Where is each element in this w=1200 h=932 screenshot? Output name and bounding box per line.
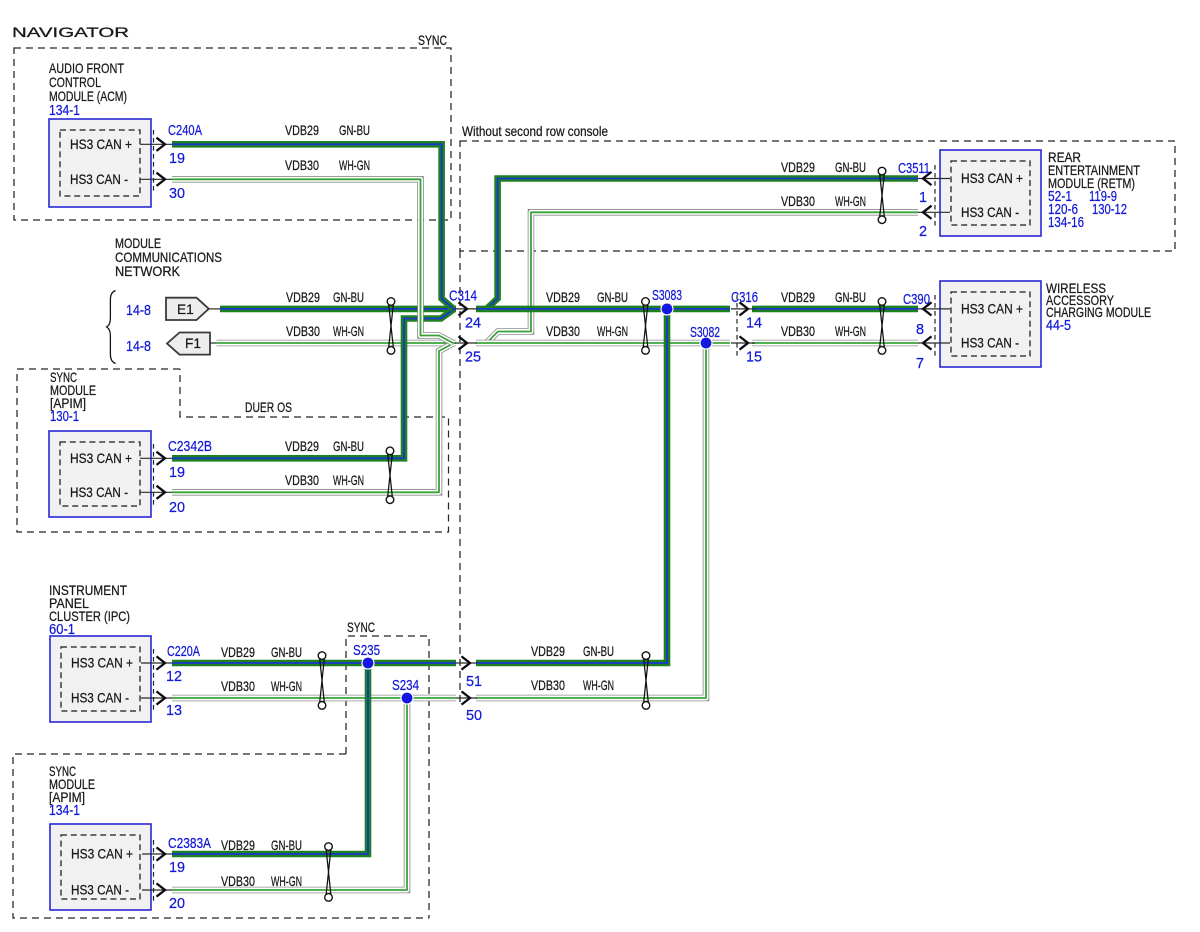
pin arrow C314 25 <box>455 342 477 344</box>
svg-text:15: 15 <box>746 350 762 366</box>
svg-text:134-1: 134-1 <box>49 803 80 819</box>
svg-text:HS3 CAN -: HS3 CAN - <box>70 172 128 187</box>
svg-text:HS3 CAN +: HS3 CAN + <box>70 137 132 152</box>
svg-text:130-1: 130-1 <box>50 409 79 425</box>
wire VDB30 WH-GN from C2342B pin 20 up to C314 pin 25 <box>172 344 453 493</box>
svg-text:GN-BU: GN-BU <box>835 290 866 305</box>
module box IPC <box>50 636 151 722</box>
wire VDB30 WH-GN from C2383A pin 20 up to splice S234 <box>172 701 407 890</box>
connector line C240A (dashed) <box>153 130 155 193</box>
svg-text:12: 12 <box>166 669 182 685</box>
svg-text:CONTROL: CONTROL <box>49 75 101 90</box>
connector line C390 (dashed) <box>934 295 936 357</box>
svg-text:C3511: C3511 <box>898 161 930 177</box>
svg-text:VDB29: VDB29 <box>221 838 255 853</box>
node E1 flag <box>166 298 209 320</box>
wire VDB30 WH-GN from C220A pin 13 through S234 to pin 50 <box>172 695 456 702</box>
pin arrow C2342B 19 <box>140 457 172 459</box>
svg-text:2: 2 <box>919 224 927 240</box>
module box SYNC MODULE APIM 134-1 <box>50 824 151 910</box>
svg-text:44-5: 44-5 <box>1046 318 1071 334</box>
pin arrow C314 24 <box>455 308 477 310</box>
svg-text:AUDIO FRONT: AUDIO FRONT <box>49 61 125 76</box>
connector line C2383A (dashed) <box>153 840 155 904</box>
svg-text:VDB30: VDB30 <box>781 194 815 209</box>
wire VDB29 GN-BU C316 pin 14 to WACM C390 pin 8 <box>752 306 918 313</box>
pin arrow C240A 19 <box>140 143 172 145</box>
svg-text:VDB30: VDB30 <box>546 324 580 339</box>
svg-text:WH-GN: WH-GN <box>835 194 866 209</box>
svg-text:HS3 CAN +: HS3 CAN + <box>71 656 133 671</box>
svg-text:7: 7 <box>916 356 924 372</box>
twisted pair symbol lower bus wires <box>644 659 649 702</box>
svg-text:C314: C314 <box>449 289 477 305</box>
wire VDB30 WH-GN C316 pin 15 to WACM C390 pin 7 <box>752 340 918 347</box>
svg-text:1: 1 <box>919 190 927 206</box>
dashed box SYNC (top region) <box>14 48 451 220</box>
svg-text:WH-GN: WH-GN <box>583 678 614 693</box>
svg-text:GN-BU: GN-BU <box>333 290 364 305</box>
svg-text:VDB30: VDB30 <box>221 874 255 889</box>
twisted pair symbol RETM wires <box>880 174 885 216</box>
wire VDB29 GN-BU from E1 to C314 pin 24 <box>220 306 456 313</box>
twisted pair symbol E1/F1 wires <box>389 305 394 348</box>
module box ACM <box>49 119 151 207</box>
svg-text:Without second row console: Without second row console <box>462 124 608 139</box>
svg-text:GN-BU: GN-BU <box>583 644 614 659</box>
svg-text:C390: C390 <box>903 292 930 308</box>
dashed box Without second row console <box>460 141 1175 251</box>
svg-text:20: 20 <box>169 500 185 516</box>
pin arrow C390 7 <box>918 342 950 344</box>
pin arrow C390 8 <box>918 308 950 310</box>
connector line C3511 (dashed) <box>934 165 936 226</box>
pin arrow C2342B 20 <box>140 491 172 493</box>
dashed box SYNC MODULE APIM 130-1 region with DUER OS <box>17 369 449 532</box>
svg-text:HS3 CAN +: HS3 CAN + <box>71 847 133 862</box>
pin arrow C3511 2 <box>918 211 950 213</box>
svg-text:VDB29: VDB29 <box>781 290 815 305</box>
svg-text:134-16: 134-16 <box>1048 215 1084 231</box>
svg-text:GN-BU: GN-BU <box>339 123 370 138</box>
pin arrow C314 51 <box>456 662 477 664</box>
svg-text:WH-GN: WH-GN <box>333 324 364 339</box>
svg-text:C240A: C240A <box>168 123 202 139</box>
wire VDB29 GN-BU from C2383A pin 19 up to splice S235 <box>172 666 368 854</box>
svg-text:WH-GN: WH-GN <box>271 874 302 889</box>
svg-text:HS3 CAN +: HS3 CAN + <box>961 171 1023 186</box>
node F1 flag <box>167 333 210 355</box>
wire VDB30 WH-GN bus C314 pin 25 to C316 pin 15 <box>476 340 730 347</box>
svg-text:COMMUNICATIONS: COMMUNICATIONS <box>115 250 222 265</box>
svg-text:MODULE: MODULE <box>115 236 161 251</box>
svg-text:HS3 CAN -: HS3 CAN - <box>70 485 128 500</box>
svg-text:130-12: 130-12 <box>1092 202 1127 218</box>
svg-text:VDB29: VDB29 <box>286 290 320 305</box>
pin arrow C314 50 <box>456 697 477 699</box>
svg-text:WH-GN: WH-GN <box>835 324 866 339</box>
svg-text:GN-BU: GN-BU <box>835 160 866 175</box>
connector line C220A (dashed) <box>153 649 155 712</box>
connector line C314 (dashed) <box>459 251 461 702</box>
dashed box SYNC MODULE APIM 134-1 <box>13 754 429 918</box>
svg-text:8: 8 <box>916 322 924 338</box>
wire VDB30 WH-GN pin 50 to S3082 riser <box>476 346 706 698</box>
wire VDB29 GN-BU bus C314 pin 24 to C316 pin 14 <box>476 306 730 313</box>
svg-text:VDB30: VDB30 <box>285 158 319 173</box>
svg-text:C2342B: C2342B <box>168 439 212 455</box>
twisted pair symbol C220A wires <box>320 659 325 702</box>
svg-text:C2383A: C2383A <box>168 836 211 852</box>
svg-text:SYNC: SYNC <box>418 33 447 48</box>
svg-text:VDB30: VDB30 <box>286 324 320 339</box>
wire VDB29 GN-BU from C220A pin 12 through S235 to pin 51 <box>172 660 456 667</box>
svg-text:NAVIGATOR: NAVIGATOR <box>12 25 129 40</box>
svg-text:HS3 CAN -: HS3 CAN - <box>71 883 129 898</box>
svg-text:50: 50 <box>466 708 482 724</box>
svg-text:30: 30 <box>169 186 185 202</box>
twisted pair symbol mid bus at S3083 <box>643 305 648 348</box>
pin arrow C220A 12 <box>141 662 172 664</box>
svg-text:HS3 CAN +: HS3 CAN + <box>961 301 1023 316</box>
svg-text:VDB29: VDB29 <box>285 439 319 454</box>
svg-text:C316: C316 <box>731 290 758 306</box>
svg-text:GN-BU: GN-BU <box>271 838 302 853</box>
module box SYNC MODULE APIM 130-1 <box>49 431 151 517</box>
svg-text:VDB30: VDB30 <box>285 473 319 488</box>
splice S234 <box>401 692 413 704</box>
svg-text:VDB30: VDB30 <box>221 679 255 694</box>
svg-text:51: 51 <box>466 674 482 690</box>
svg-text:VDB29: VDB29 <box>531 644 565 659</box>
brace for module communications network <box>107 291 116 364</box>
module box WACM <box>940 281 1041 367</box>
svg-text:19: 19 <box>169 860 185 876</box>
svg-text:WH-GN: WH-GN <box>339 158 370 173</box>
svg-text:134-1: 134-1 <box>49 103 80 119</box>
wire VDB29 GN-BU pin 51 to S3083 riser <box>476 312 667 663</box>
pin arrow C316 15 <box>731 342 755 344</box>
svg-text:HS3 CAN -: HS3 CAN - <box>961 336 1019 351</box>
svg-text:GN-BU: GN-BU <box>271 645 302 660</box>
svg-text:S234: S234 <box>392 678 419 694</box>
svg-text:19: 19 <box>169 465 185 481</box>
wire VDB29 GN-BU from RETM C3511 pin 1 down to bus <box>487 179 919 309</box>
splice S3083 <box>661 303 673 315</box>
svg-text:25: 25 <box>465 350 481 366</box>
svg-text:NETWORK: NETWORK <box>115 264 180 279</box>
svg-text:GN-BU: GN-BU <box>597 290 628 305</box>
svg-text:VDB29: VDB29 <box>781 160 815 175</box>
splice S235 <box>362 657 374 669</box>
svg-text:F1: F1 <box>185 336 201 351</box>
svg-text:VDB29: VDB29 <box>546 290 580 305</box>
wire VDB29 GN-BU from C240A pin 19 down to C314 pin 24 <box>172 144 454 309</box>
svg-text:14-8: 14-8 <box>126 303 151 319</box>
svg-text:WH-GN: WH-GN <box>597 324 628 339</box>
svg-text:GN-BU: GN-BU <box>333 439 364 454</box>
svg-text:HS3 CAN -: HS3 CAN - <box>71 691 129 706</box>
svg-text:14: 14 <box>746 316 762 332</box>
svg-text:S3082: S3082 <box>690 325 720 341</box>
svg-text:S235: S235 <box>353 643 380 659</box>
connector line C2342B (dashed) <box>153 444 155 506</box>
svg-text:13: 13 <box>166 703 182 719</box>
twisted pair symbol WACM wires <box>880 305 885 348</box>
svg-text:VDB29: VDB29 <box>285 123 319 138</box>
svg-text:S3083: S3083 <box>652 288 682 304</box>
svg-text:VDB30: VDB30 <box>781 324 815 339</box>
pin arrow C220A 13 <box>141 697 172 699</box>
twisted pair symbol C2342B wires <box>388 454 393 496</box>
svg-text:HS3 CAN +: HS3 CAN + <box>70 451 132 466</box>
wire VDB29 GN-BU from C2342B pin 19 up to C314 pin 24 <box>172 309 454 458</box>
svg-text:HS3 CAN -: HS3 CAN - <box>961 205 1019 220</box>
pin arrow C2383A 20 <box>142 889 172 891</box>
svg-text:DUER OS: DUER OS <box>245 400 292 415</box>
svg-text:VDB30: VDB30 <box>531 678 565 693</box>
svg-text:WH-GN: WH-GN <box>333 473 364 488</box>
svg-text:20: 20 <box>169 896 185 912</box>
splice S3082 <box>700 337 712 349</box>
svg-text:WH-GN: WH-GN <box>271 679 302 694</box>
twisted pair symbol C2383A wires <box>326 850 331 894</box>
dashed box SYNC (lower, S235/S234 region) <box>346 636 429 918</box>
svg-text:MODULE (ACM): MODULE (ACM) <box>49 89 127 104</box>
svg-text:14-8: 14-8 <box>126 339 151 355</box>
svg-text:C220A: C220A <box>167 644 200 660</box>
svg-text:VDB29: VDB29 <box>221 645 255 660</box>
wire VDB30 WH-GN from F1 to C314 pin 25 <box>217 340 457 347</box>
pin arrow C2383A 19 <box>142 853 172 855</box>
pin arrow C240A 30 <box>140 178 172 180</box>
svg-text:SYNC: SYNC <box>347 620 375 635</box>
wire VDB30 WH-GN from RETM C3511 pin 2 down to bus <box>487 212 919 343</box>
connector line C316 (dashed) <box>736 295 738 357</box>
wire VDB30 WH-GN from C240A pin 30 down to C314 pin 25 <box>172 179 453 343</box>
module box RETM <box>940 150 1041 236</box>
svg-text:E1: E1 <box>177 302 194 317</box>
svg-text:19: 19 <box>169 151 185 167</box>
pin arrow C316 14 <box>731 308 755 310</box>
svg-text:24: 24 <box>465 316 481 332</box>
pin arrow C3511 1 <box>918 178 950 180</box>
